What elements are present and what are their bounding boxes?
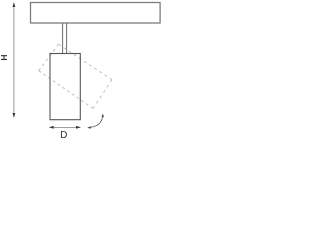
horizontal dimension line D — [51, 126, 80, 128]
rotation curved arrow — [89, 115, 102, 127]
dashed rotated lamp outline: edge top-right — [59, 44, 113, 80]
stem wire right — [66, 23, 68, 54]
right arrowhead — [76, 126, 81, 129]
lamp body (solid rectangle) — [50, 54, 80, 120]
dashed rotated lamp outline: edge right-bottom — [93, 80, 112, 109]
track bar (top rectangle) — [31, 3, 161, 24]
dashed rotated lamp outline: edge bottom-left — [39, 71, 93, 109]
left arrowhead — [49, 126, 54, 129]
curved arrow head top — [102, 113, 104, 117]
svg-text:D: D — [60, 130, 67, 140]
top arrowhead — [13, 2, 16, 7]
stem wire left — [62, 23, 64, 54]
curved arrow head lower-left — [87, 126, 91, 129]
vertical dimension line H — [13, 5, 15, 116]
svg-text:H: H — [0, 54, 9, 60]
dashed rotated lamp outline: edge left-top — [39, 44, 59, 70]
bottom arrowhead — [13, 113, 16, 118]
